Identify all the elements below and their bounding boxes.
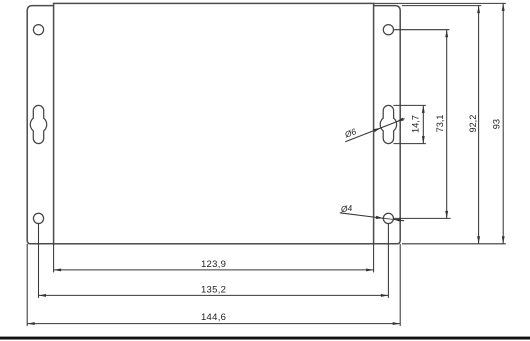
extension line part bottom (for 92.2 and 93) [402,243,506,245]
arrowhead 93 bottom [502,236,505,244]
arrowhead 123.9 right [366,268,374,271]
svg-text:93: 93 [491,119,501,129]
arrowhead 144.6 right [393,322,401,325]
extension line right flange edge down (for 144.6) [399,244,401,326]
svg-text:144,6: 144,6 [201,312,226,323]
extension line body left edge down (for 123.9) [53,244,55,273]
extension line slot top (for 14.7) [393,104,426,106]
arrowhead 93 top [502,3,505,10]
svg-text:123,9: 123,9 [201,259,226,270]
extension line bottom-left hole center down (for 135.2) [38,223,40,298]
leader tail Ø4 second arrow [393,219,404,220]
svg-text:92,2: 92,2 [468,115,478,133]
right mounting flange outline [374,6,401,244]
arrowhead 14.7 bottom [422,136,425,144]
keyhole slot left [30,105,46,143]
dimension line 14.7 [422,105,424,143]
extension line body right edge down (for 123.9) [373,244,375,273]
keyhole slot right [380,105,396,143]
arrowhead Ø4 leader (at hole left edge) [376,216,384,219]
arrowhead 73.1 bottom [445,211,448,219]
plate body outline [54,3,374,243]
arrowhead Ø6 leader left (at slot left edge) [373,128,381,132]
arrowhead 73.1 top [445,30,448,38]
svg-text:73,1: 73,1 [435,114,445,132]
svg-text:135,2: 135,2 [201,284,226,295]
arrowhead 135.2 left [39,294,47,297]
leader line Ø4 through hole [383,218,393,219]
hole top-left Ø4 [33,25,43,35]
arrowhead 123.9 left [54,268,62,271]
arrowhead 135.2 right [381,294,389,297]
left mounting flange outline [27,6,53,244]
svg-text:14,7: 14,7 [411,115,421,133]
page border bottom bar [0,337,530,340]
dimension line 92.2 [478,6,480,244]
extension line left flange edge down (for 144.6) [26,244,28,326]
leader line Ø6 [345,119,404,142]
hole top-right Ø4 [383,25,393,35]
arrowhead Ø4 second (at hole right edge) [393,219,401,222]
arrowhead 14.7 top [422,105,425,113]
extension line bottom-right hole center down (for 135.2) [387,223,389,298]
arrowhead 92.2 bottom [477,236,480,244]
hole bottom-left Ø4 [33,213,43,223]
leader line Ø4 [340,213,384,219]
dimension line 93 [502,3,504,243]
extension line bottom-right hole center (for 73.1) [394,217,451,219]
extension line top-right hole center (for 73.1) [394,29,450,31]
hole bottom-right Ø4 [383,213,393,223]
arrowhead 144.6 left [27,322,35,325]
svg-text:Ø4: Ø4 [339,203,353,215]
arrowhead Ø6 leader right (at slot right edge) [396,118,404,122]
extension line flange top (for 92.2) [402,5,481,7]
dimension line 144.6 [27,323,400,325]
arrowhead 92.2 top [477,6,480,14]
dimension line 73.1 [446,30,448,219]
dimension line 135.2 [39,294,389,296]
extension line slot bottom (for 14.7) [393,143,426,145]
dimension line 123.9 [54,269,374,271]
extension line body top (for 93) [374,2,506,4]
